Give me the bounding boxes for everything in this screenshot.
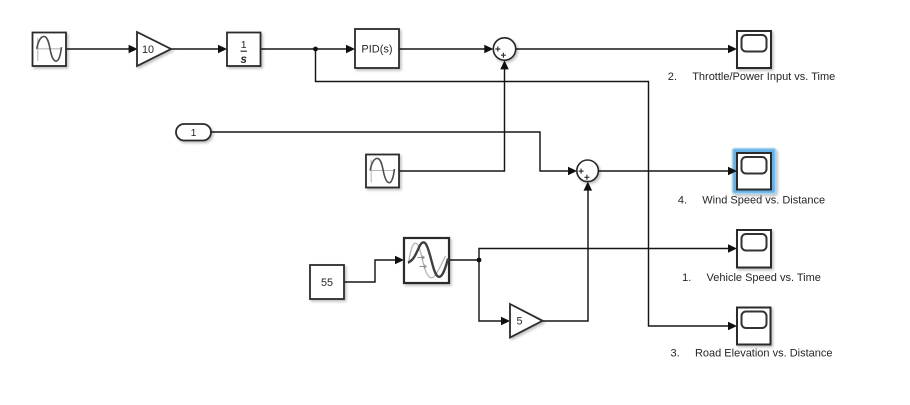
junction dot signal editor output [477,258,482,263]
scope block 1 Vehicle Speed [737,230,771,268]
constant block 55 [310,265,344,299]
PID controller block [355,29,399,68]
wire sine2 to sum1 bottom [399,60,509,171]
wire gain5 to sum2 bottom [543,182,593,321]
highlight scope 4 [733,149,776,194]
wire PID to sum1 [399,45,493,54]
sum block sum2 [577,160,599,182]
wire sum2 to scope4 [598,167,737,176]
scope block 4 Wind Speed [737,153,771,190]
wire constant55 to signal editor [344,256,404,282]
signal editor block [404,238,449,283]
svg-text:10: 10 [142,44,154,56]
wire gain10 to integrator [171,45,227,54]
constant block 1 [176,124,211,141]
scope block 3 Road Elevation [737,308,771,345]
wire sine1 to gain10 [66,45,138,54]
svg-text:1. Vehicle Speed vs. Time: 1. Vehicle Speed vs. Time [682,272,821,284]
block Sine Wave source [33,33,67,67]
svg-text:PID(s): PID(s) [361,43,392,55]
junction dot integrator output branch [313,47,318,52]
wire constant1 to sum2 [211,132,577,175]
svg-text:2. Throttle/Power Input vs: 2. Throttle/Power Input vs. Time [668,71,836,83]
block Sine Wave 2 [366,155,399,188]
wire signal editor branch to gain5 [479,260,510,325]
svg-text:3. Road Elevation vs. Dist: 3. Road Elevation vs. Distance [670,347,832,359]
wire integrator to PID [260,45,355,54]
gain block 5 [510,304,543,338]
wire sum1 to scope2 [516,45,737,54]
svg-text:s: s [240,54,246,66]
gain block 10 [137,32,171,66]
svg-text:4. Wind Speed vs. Distance: 4. Wind Speed vs. Distance [678,195,825,207]
svg-text:5: 5 [516,316,522,328]
svg-text:55: 55 [321,277,333,289]
sum block sum1 [493,38,515,60]
wire integrator branch to scope3 [316,49,738,330]
scope block 2 Throttle [737,31,771,68]
svg-text:1: 1 [241,39,247,51]
wire signal editor to scope1 [449,244,737,260]
svg-text:1: 1 [191,127,197,139]
integrator block 1/s [227,33,261,67]
